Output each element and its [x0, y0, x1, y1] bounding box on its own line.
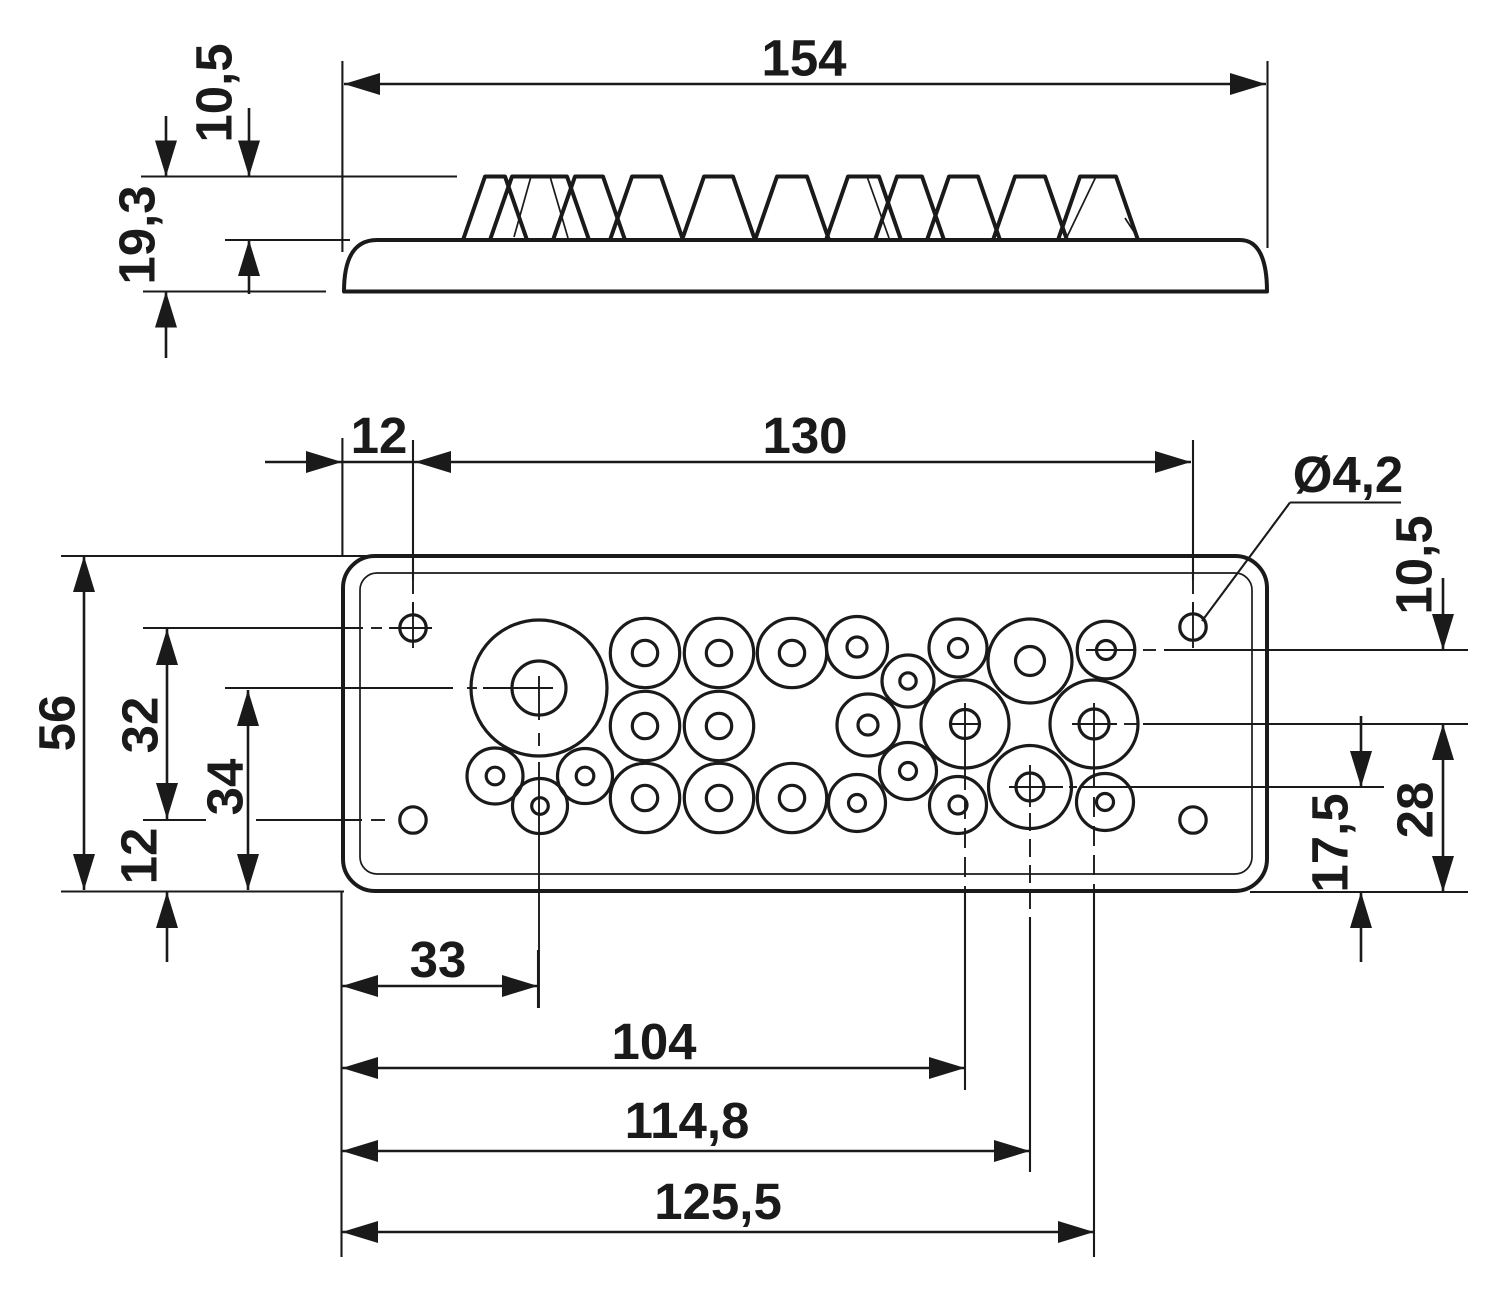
dimension 34 left [197, 758, 254, 815]
centerline grommet r5 horizontal [1086, 649, 1134, 651]
dimension 12 left [111, 828, 168, 885]
mounting hole top-right [1180, 614, 1206, 640]
centerline top-left hole horizontal [143, 627, 363, 629]
hidden cone edge c [867, 177, 889, 239]
svg-text:10,5: 10,5 [186, 43, 243, 142]
extension line plate left edge bottom [340, 892, 342, 1257]
centerline top-right hole vertical [1192, 440, 1194, 580]
cone 11 (side view) [1058, 177, 1138, 241]
grommet grid 2 [684, 618, 753, 687]
dimension 10,5 right [1386, 515, 1443, 614]
grommet grid 6 [610, 763, 679, 832]
grommet r2 [882, 655, 934, 707]
svg-text:17,5: 17,5 [1302, 793, 1359, 892]
cone 9 (side view) [927, 177, 1000, 241]
svg-text:12: 12 [111, 828, 168, 885]
svg-text:34: 34 [197, 758, 254, 815]
mounting hole top-left [400, 615, 426, 641]
grommet grid 3 [757, 618, 826, 687]
grommet r11 [930, 777, 987, 834]
grommet r10 [829, 775, 886, 832]
dimension 19,3 [109, 185, 166, 284]
svg-text:28: 28 [1387, 782, 1444, 839]
centerline grommet r12 vertical [1029, 765, 1031, 807]
cone 5 (side view) [682, 177, 755, 241]
centerline grommet r8 vertical [964, 703, 966, 770]
centerline bottom-left hole horizontal [143, 819, 206, 821]
dimension 17,5 right [1302, 793, 1359, 892]
svg-text:56: 56 [29, 695, 86, 752]
centerline grommet r12 horizontal [1009, 786, 1063, 788]
grommet r13 [1077, 774, 1134, 831]
centerline large grommet vertical [538, 676, 540, 720]
svg-text:114,8: 114,8 [625, 1092, 750, 1149]
cone 7 (side view) [826, 177, 901, 241]
grommet grid 4 [610, 691, 679, 760]
svg-text:19,3: 19,3 [109, 185, 166, 284]
grommet small c [558, 749, 613, 804]
front plate inner outline [360, 573, 1252, 874]
mounting hole bottom-right [1180, 807, 1206, 833]
grommet grid 8 [757, 763, 826, 832]
svg-text:32: 32 [112, 697, 169, 754]
grommet r8 large [921, 680, 1009, 768]
grommet r5 [1077, 621, 1135, 679]
cone 8 (side view) [875, 177, 944, 241]
dimension 32 left [112, 697, 169, 754]
centerline grommet r9 vertical [1093, 703, 1095, 768]
grommet r12 large [989, 746, 1072, 829]
side view plate body [344, 240, 1267, 292]
hidden cone edge e [1125, 218, 1139, 240]
grommet grid 1 [610, 618, 679, 687]
svg-text:Ø4,2: Ø4,2 [1293, 446, 1404, 503]
large grommet [471, 620, 607, 756]
hidden cone edge d [1066, 177, 1096, 240]
centerline grommet r8 horizontal [949, 723, 981, 725]
grommet r9 large [1050, 680, 1138, 768]
dimension 56 left [29, 695, 86, 752]
cone 4 (side view) [610, 177, 683, 241]
grommet small b [513, 779, 568, 834]
hidden cone edge b [550, 177, 568, 239]
extension line plate bottom right [1250, 891, 1468, 893]
cone 3 (side view) [553, 177, 625, 241]
svg-text:33: 33 [410, 931, 467, 988]
svg-text:154: 154 [761, 30, 847, 87]
mounting hole bottom-left [400, 807, 426, 833]
svg-text:10,5: 10,5 [1386, 515, 1443, 614]
cone 6 (side view) [755, 177, 829, 241]
hidden cone edge a [514, 177, 531, 238]
dimension 10,5 top view [186, 43, 243, 142]
cone 1 (side view) [463, 177, 527, 241]
grommet small a [467, 748, 523, 804]
centerline top-left hole vertical [412, 440, 414, 580]
cone 2 (side view) [490, 177, 589, 241]
centerline large grommet horizontal [225, 687, 453, 689]
front plate outer outline [343, 556, 1267, 891]
grommet grid 7 [684, 763, 753, 832]
svg-text:130: 130 [762, 407, 847, 464]
centerline grommet r9 horizontal [1072, 723, 1117, 725]
svg-text:12: 12 [351, 407, 408, 464]
grommet grid 5 [684, 691, 753, 760]
cone 10 (side view) [993, 177, 1067, 241]
grommet r6 [837, 694, 899, 756]
dimension 28 right [1387, 782, 1444, 839]
grommet r7 [880, 743, 937, 800]
svg-text:104: 104 [611, 1013, 697, 1070]
grommet r1 [827, 617, 888, 678]
grommet r3 [929, 619, 987, 677]
svg-text:125,5: 125,5 [654, 1173, 782, 1230]
grommet r4 large [988, 619, 1072, 703]
